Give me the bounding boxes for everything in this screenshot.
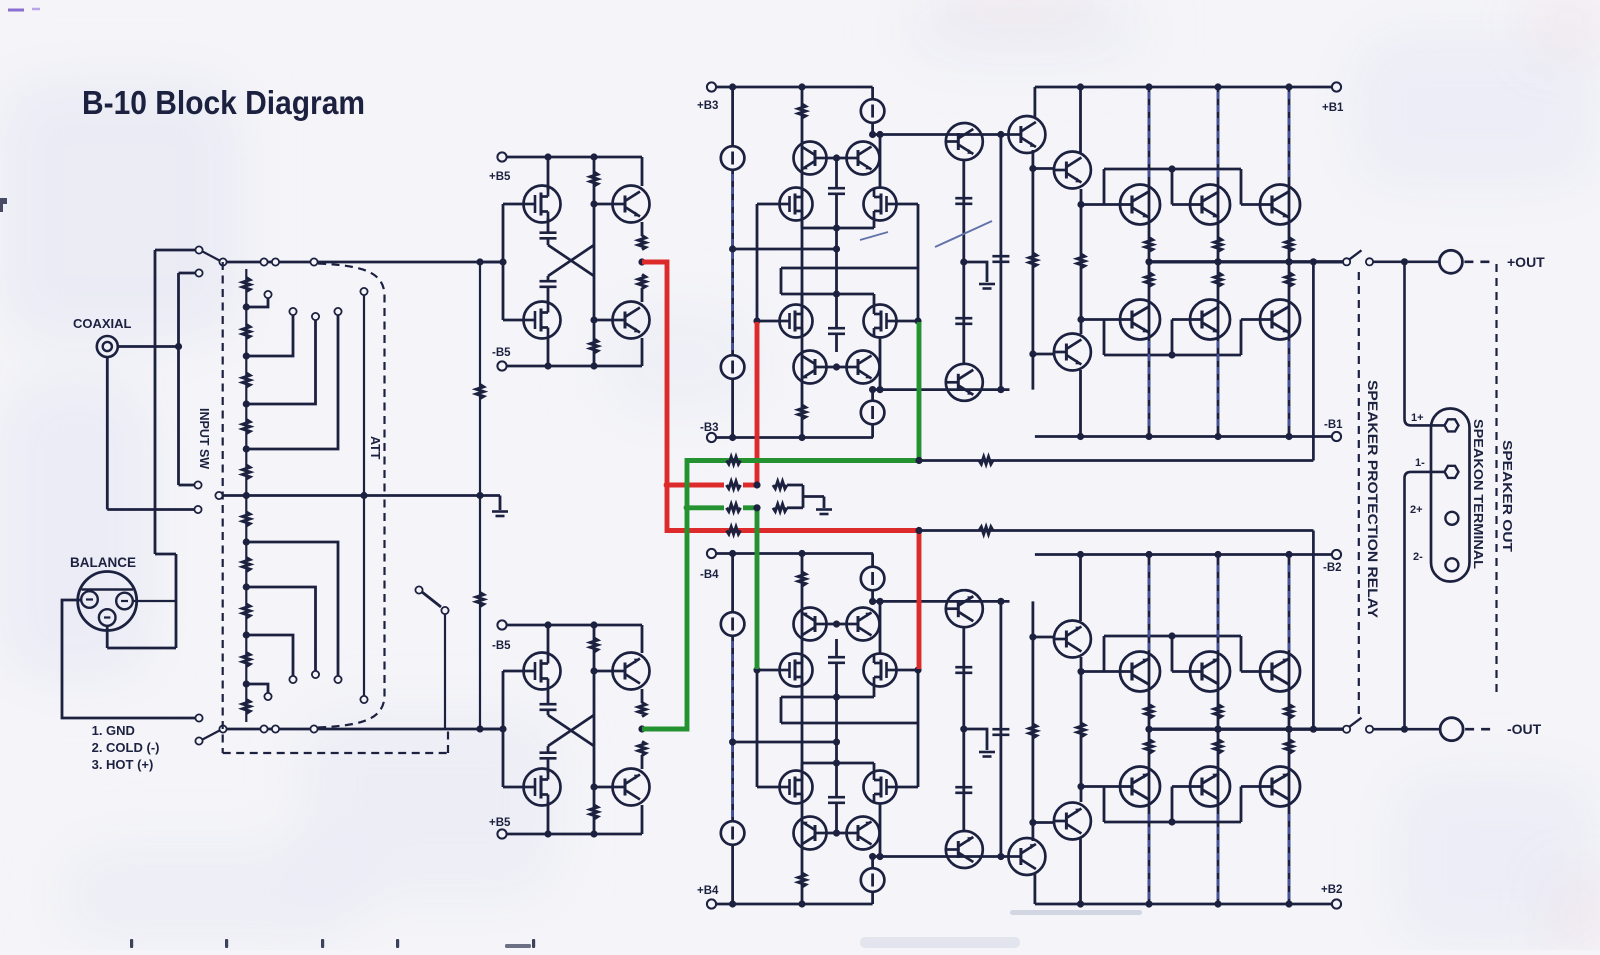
svg-text:1. GND: 1. GND <box>92 723 135 738</box>
svg-text:+B5: +B5 <box>489 171 511 183</box>
svg-text:1+: 1+ <box>1411 412 1424 424</box>
svg-text:3. HOT (+): 3. HOT (+) <box>92 757 154 772</box>
svg-text:ATT: ATT <box>368 436 382 460</box>
svg-text:-B5: -B5 <box>492 640 511 652</box>
svg-text:2+: 2+ <box>1410 504 1423 516</box>
svg-text:SPEAKON TERMINAL: SPEAKON TERMINAL <box>1471 419 1486 569</box>
svg-text:-OUT: -OUT <box>1507 721 1542 737</box>
svg-text:+B4: +B4 <box>697 885 719 897</box>
svg-text:-B4: -B4 <box>700 569 719 581</box>
svg-text:B-10 Block Diagram: B-10 Block Diagram <box>82 84 365 121</box>
svg-text:-B5: -B5 <box>492 347 511 359</box>
svg-text:-B2: -B2 <box>1323 562 1342 574</box>
svg-text:SPEAKER PROTECTION RELAY: SPEAKER PROTECTION RELAY <box>1365 380 1381 619</box>
svg-text:BALANCE: BALANCE <box>70 555 136 570</box>
svg-text:+B3: +B3 <box>697 100 718 112</box>
svg-text:+OUT: +OUT <box>1507 254 1545 270</box>
svg-text:1-: 1- <box>1415 457 1425 469</box>
svg-text:+B2: +B2 <box>1321 884 1342 896</box>
svg-text:-B3: -B3 <box>700 422 719 434</box>
svg-text:INPUT SW: INPUT SW <box>197 408 211 469</box>
svg-text:-B1: -B1 <box>1324 419 1343 431</box>
svg-text:COAXIAL: COAXIAL <box>73 316 132 331</box>
svg-text:SPEAKER OUT: SPEAKER OUT <box>1500 440 1515 552</box>
svg-text:+B1: +B1 <box>1322 102 1344 114</box>
svg-text:2. COLD (-): 2. COLD (-) <box>92 740 160 755</box>
svg-text:+B5: +B5 <box>489 817 511 829</box>
svg-text:2-: 2- <box>1413 551 1423 563</box>
